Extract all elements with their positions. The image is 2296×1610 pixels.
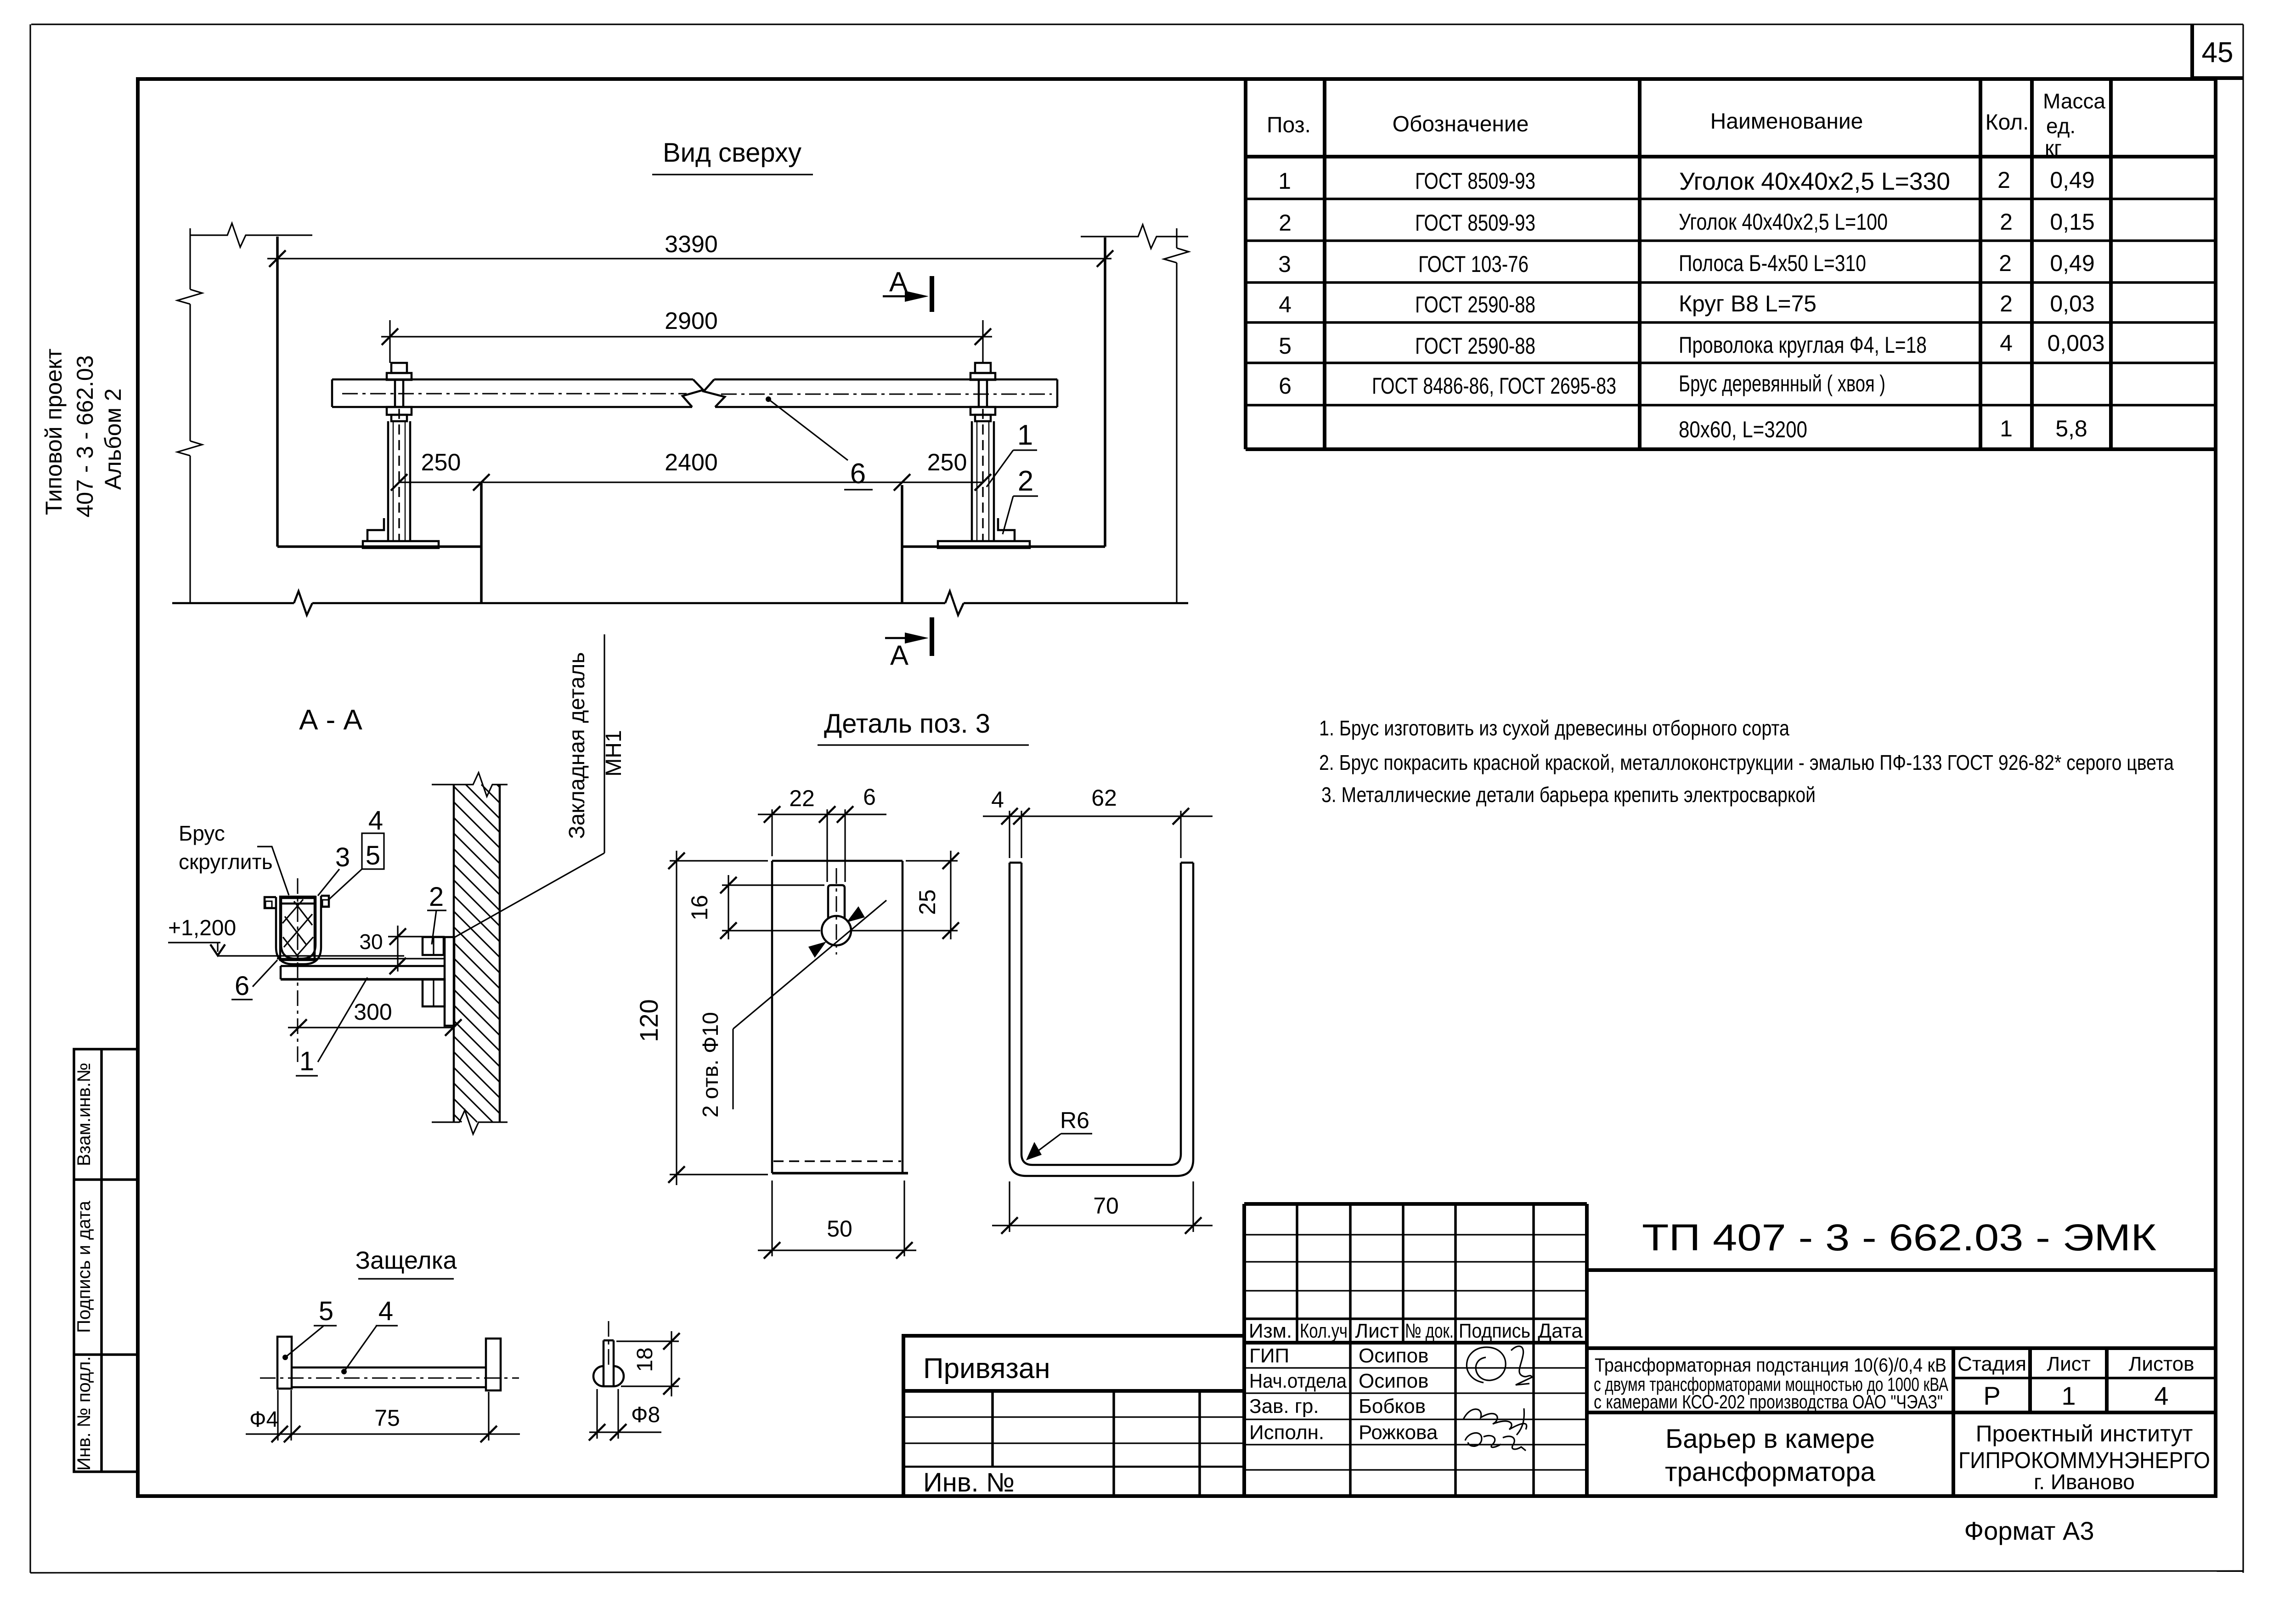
svg-text:Формат А3: Формат А3 — [1964, 1516, 2094, 1545]
svg-text:R6: R6 — [1060, 1107, 1089, 1133]
table GOST designations column — [1372, 168, 1616, 399]
strap right ear with pin — [321, 896, 329, 907]
svg-text:ГИП: ГИП — [1249, 1344, 1289, 1367]
dimension 300 (A-A) — [288, 999, 462, 1036]
top view: right outer extension line with break — [1164, 228, 1189, 603]
dimension 30 (A-A) — [359, 926, 445, 974]
svg-text:ГИПРОКОММУНЭНЕРГО: ГИПРОКОММУНЭНЕРГО — [1958, 1447, 2210, 1473]
wall faces — [454, 785, 500, 1122]
dimension row 250 / 2400 / 250 — [391, 449, 991, 491]
table name column — [1679, 168, 1950, 442]
svg-text:300: 300 — [354, 999, 392, 1025]
wall cut top edge with break — [432, 773, 508, 797]
angle bracket poz.1 horizontal bar — [277, 959, 444, 979]
dimension 50 — [758, 1181, 916, 1259]
svg-text:6: 6 — [863, 784, 876, 810]
signature Осипов — [1467, 1346, 1532, 1385]
hook rod Ф8 detail — [593, 1340, 624, 1386]
svg-text:16: 16 — [687, 895, 712, 921]
svg-text:Инв. № подл.: Инв. № подл. — [74, 1356, 94, 1470]
svg-text:Изм.: Изм. — [1249, 1320, 1292, 1342]
svg-text:Вид сверху: Вид сверху — [663, 138, 801, 168]
svg-text:ед.: ед. — [2046, 114, 2076, 138]
svg-text:0,03: 0,03 — [2050, 291, 2094, 316]
svg-text:Масса: Масса — [2043, 89, 2105, 113]
slot with hole in plate — [822, 885, 851, 945]
right opening edge — [901, 485, 903, 603]
wall section hatching — [454, 785, 500, 1122]
svg-text:5: 5 — [1279, 333, 1292, 359]
left wall bottom face — [277, 545, 481, 548]
svg-text:Р: Р — [1983, 1381, 2000, 1410]
svg-text:Барьер в камере: Барьер в камере — [1665, 1424, 1875, 1454]
svg-text:№ док.: № док. — [1405, 1320, 1454, 1342]
section mark A top — [883, 266, 932, 312]
svg-text:Брус деревянный ( хвоя ): Брус деревянный ( хвоя ) — [1679, 371, 1885, 396]
svg-text:1: 1 — [299, 1046, 314, 1076]
svg-text:62: 62 — [1091, 785, 1117, 811]
dimension 18 (hook) — [616, 1331, 680, 1396]
svg-text:5,8: 5,8 — [2055, 416, 2087, 441]
svg-text:Проектный институт: Проектный институт — [1976, 1421, 2193, 1446]
svg-text:Уголок 40х40х2,5 L=100: Уголок 40х40х2,5 L=100 — [1679, 209, 1888, 235]
anchor angle poz.2 below bar — [423, 979, 445, 1006]
title block: main right part — [1587, 1270, 2216, 1496]
left post body — [388, 409, 410, 541]
svg-text:80х60, L=3200: 80х60, L=3200 — [1679, 417, 1807, 442]
svg-text:Инв. №: Инв. № — [923, 1468, 1015, 1497]
svg-text:Ф4: Ф4 — [249, 1407, 278, 1432]
svg-text:Кол.: Кол. — [1986, 110, 2029, 135]
svg-text:1: 1 — [1017, 419, 1033, 451]
svg-text:4: 4 — [368, 806, 383, 836]
dimension Ф4 and 75 (latch) — [246, 1390, 520, 1442]
svg-text:ТП 407 - 3 - 662.03 - ЭМК: ТП 407 - 3 - 662.03 - ЭМК — [1642, 1217, 2156, 1259]
top view: upper wall extension line left with break — [190, 223, 312, 247]
svg-text:4: 4 — [378, 1296, 393, 1326]
label 4 (A-A) — [368, 806, 383, 836]
svg-text:3. Металлические детали барьер: 3. Металлические детали барьера крепить … — [1321, 783, 1816, 807]
svg-text:Дата: Дата — [1538, 1320, 1583, 1342]
dimension 16 — [687, 875, 824, 939]
label 1 with leader (A-A) — [296, 977, 367, 1076]
svg-text:ГОСТ 8509-93: ГОСТ 8509-93 — [1415, 210, 1535, 236]
wooden bar (brus) top view with middle break — [332, 379, 1057, 407]
svg-text:Зав. гр.: Зав. гр. — [1249, 1395, 1319, 1418]
svg-text:2: 2 — [2000, 291, 2013, 316]
hook rod centreline — [608, 1321, 609, 1365]
table header labels — [1267, 89, 2105, 160]
sheet left edge line — [29, 24, 31, 1573]
svg-text:Закладная деталь: Закладная деталь — [565, 652, 589, 839]
dimension 22 and 6 — [758, 784, 886, 882]
svg-text:250: 250 — [421, 449, 461, 476]
svg-text:30: 30 — [359, 930, 383, 954]
latch right end plate — [486, 1339, 501, 1390]
svg-text:Уголок 40х40х2,5 L=330: Уголок 40х40х2,5 L=330 — [1679, 168, 1950, 195]
svg-text:2: 2 — [1999, 250, 2012, 276]
svg-text:2: 2 — [429, 882, 444, 912]
table position numbers column — [1278, 168, 1292, 399]
dimension 3390 — [267, 231, 1113, 267]
specification table grid — [1246, 79, 2216, 449]
svg-text:45: 45 — [2202, 37, 2234, 68]
revision table role labels — [1249, 1344, 1347, 1444]
svg-text:Нач.отдела: Нач.отдела — [1249, 1370, 1347, 1392]
svg-text:Кол.уч: Кол.уч — [1300, 1320, 1348, 1342]
brus cross-section square — [280, 897, 315, 960]
svg-text:70: 70 — [1093, 1193, 1119, 1219]
svg-text:Наименование: Наименование — [1710, 109, 1863, 134]
svg-text:2 отв. Ф10: 2 отв. Ф10 — [699, 1012, 723, 1118]
leader and label 2 (top view) — [1003, 465, 1038, 534]
latch left end plate — [277, 1337, 292, 1389]
svg-text:+1,200: +1,200 — [168, 916, 236, 940]
svg-text:0,49: 0,49 — [2050, 167, 2094, 193]
svg-text:5: 5 — [319, 1296, 333, 1326]
svg-text:4: 4 — [2000, 330, 2013, 356]
svg-text:Осипов: Осипов — [1359, 1370, 1428, 1392]
svg-text:Осипов: Осипов — [1359, 1344, 1428, 1367]
svg-text:ГОСТ 8509-93: ГОСТ 8509-93 — [1415, 168, 1535, 194]
stage/sheet values — [1983, 1381, 2168, 1410]
title block: revision table — [1244, 1204, 1587, 1496]
revision table header labels — [1249, 1320, 1583, 1342]
svg-text:ГОСТ 2590-88: ГОСТ 2590-88 — [1415, 333, 1535, 359]
label 3 with leader (A-A) — [318, 842, 350, 896]
svg-text:2: 2 — [2000, 209, 2013, 235]
svg-text:1: 1 — [2061, 1381, 2076, 1410]
svg-text:0,49: 0,49 — [2050, 250, 2094, 276]
svg-text:3390: 3390 — [665, 231, 718, 258]
svg-text:5: 5 — [366, 841, 380, 870]
U-strap holder around brus (poz.3) — [276, 896, 321, 964]
svg-text:2: 2 — [1997, 167, 2010, 193]
dimension Ф8 (hook) — [589, 1389, 661, 1441]
svg-text:Обозначение: Обозначение — [1393, 112, 1529, 136]
svg-text:Ф8: Ф8 — [631, 1403, 660, 1427]
svg-text:4: 4 — [1279, 292, 1292, 317]
signature Бобков — [1463, 1408, 1527, 1435]
table mass column — [2047, 167, 2104, 441]
slot centreline — [836, 868, 837, 955]
svg-text:3: 3 — [1278, 251, 1291, 277]
latch centreline — [260, 1378, 519, 1379]
left opening edge — [480, 483, 483, 603]
stage/sheet header — [1958, 1353, 2194, 1375]
left post nut under brus — [387, 407, 412, 421]
svg-text:250: 250 — [927, 449, 967, 476]
svg-text:0,003: 0,003 — [2047, 330, 2104, 356]
top view: upper wall extension line right with break — [1081, 225, 1188, 249]
svg-text:Защелка: Защелка — [355, 1247, 457, 1274]
svg-text:Лист: Лист — [1355, 1320, 1399, 1342]
signature Рожкова — [1465, 1433, 1526, 1451]
sheet top edge line — [31, 23, 2243, 25]
dimension 2900 — [381, 308, 992, 363]
svg-text:2: 2 — [1018, 465, 1033, 497]
dimension 70 — [992, 1181, 1213, 1234]
revision table names — [1359, 1344, 1438, 1444]
svg-text:Проволока круглая Ф4, L=18: Проволока круглая Ф4, L=18 — [1679, 332, 1927, 358]
svg-text:4: 4 — [991, 787, 1004, 813]
leader and label 6 (top view) — [766, 396, 873, 490]
title block: Привязан table — [903, 1336, 1244, 1497]
brus centreline — [342, 393, 687, 395]
svg-text:ГОСТ 8486-86, ГОСТ 2695-83: ГОСТ 8486-86, ГОСТ 2695-83 — [1372, 373, 1616, 399]
dimension 120 — [634, 851, 768, 1185]
plate bend dashed line — [773, 1160, 901, 1162]
svg-text:120: 120 — [634, 999, 663, 1042]
svg-text:ГОСТ 2590-88: ГОСТ 2590-88 — [1415, 292, 1535, 317]
upper anchor clip poz.2 — [423, 937, 444, 955]
svg-text:22: 22 — [789, 785, 815, 811]
svg-text:2. Брус покрасить красной крас: 2. Брус покрасить красной краской, метал… — [1319, 751, 2174, 774]
svg-text:трансформатора: трансформатора — [1665, 1457, 1876, 1487]
label 6 with leader (A-A) — [231, 960, 277, 1001]
svg-text:50: 50 — [827, 1216, 852, 1242]
svg-text:Типовой проект: Типовой проект — [41, 349, 67, 515]
section mark A bottom — [885, 617, 932, 671]
svg-text:Исполн.: Исполн. — [1249, 1421, 1324, 1444]
svg-text:407 - 3 - 662.03: 407 - 3 - 662.03 — [72, 355, 98, 517]
svg-text:0,15: 0,15 — [2050, 209, 2094, 235]
svg-text:Полоса Б-4х50 L=310: Полоса Б-4х50 L=310 — [1679, 250, 1866, 276]
strap left ear with pin — [265, 897, 276, 908]
U-bent strip side view — [1010, 863, 1193, 1176]
left wall face — [276, 237, 279, 547]
svg-text:Лист: Лист — [2047, 1353, 2091, 1375]
svg-text:2900: 2900 — [665, 308, 718, 334]
svg-text:Подпись: Подпись — [1459, 1320, 1530, 1342]
svg-text:кг: кг — [2045, 136, 2062, 160]
svg-text:1: 1 — [1278, 168, 1291, 194]
leader and label 1 (top view) — [987, 419, 1037, 487]
svg-text:Бобков: Бобков — [1359, 1395, 1426, 1418]
svg-text:МН1: МН1 — [602, 730, 626, 776]
strap top cover plate with bolt — [279, 898, 316, 904]
right post body — [972, 409, 994, 541]
leader from МН1 to embedded plate — [453, 634, 604, 938]
svg-text:Листов: Листов — [2129, 1353, 2194, 1375]
right post base angle step — [998, 518, 1015, 541]
svg-text:Стадия: Стадия — [1958, 1353, 2026, 1375]
svg-text:25: 25 — [914, 889, 940, 915]
svg-text:6: 6 — [235, 971, 249, 1001]
svg-text:Подпись и дата: Подпись и дата — [74, 1200, 94, 1333]
callout R6 — [1026, 1107, 1092, 1160]
left post base angle step — [367, 518, 384, 541]
page number box 45 — [2192, 24, 2243, 79]
svg-text:6: 6 — [850, 458, 866, 490]
svg-text:Альбом 2: Альбом 2 — [100, 388, 126, 490]
svg-text:Поз.: Поз. — [1267, 113, 1311, 137]
label 5 with leader (latch) — [282, 1296, 337, 1360]
svg-text:4: 4 — [2154, 1381, 2168, 1410]
institute name — [1958, 1421, 2210, 1494]
svg-text:18: 18 — [633, 1347, 657, 1372]
left post base plate — [363, 541, 439, 548]
right wall face — [1104, 237, 1106, 547]
svg-text:Взам.инв.№: Взам.инв.№ — [74, 1062, 94, 1166]
label Брус скруглить — [179, 821, 289, 895]
svg-text:75: 75 — [374, 1405, 400, 1431]
svg-text:Рожкова: Рожкова — [1359, 1421, 1438, 1444]
svg-text:Круг В8 L=75: Круг В8 L=75 — [1679, 291, 1816, 316]
svg-text:1. Брус изготовить из сухой др: 1. Брус изготовить из сухой древесины от… — [1319, 716, 1789, 740]
svg-text:1: 1 — [2000, 416, 2013, 441]
lower wall long line with breaks — [172, 591, 1188, 615]
right post bolt head — [970, 363, 995, 407]
right wall bottom face — [902, 545, 1105, 548]
label 2 with leader (A-A) — [427, 882, 446, 944]
embedded plate MH1 — [445, 937, 454, 1026]
right post nut under brus — [970, 407, 995, 421]
svg-text:6: 6 — [1279, 373, 1292, 399]
brus vertical centreline — [297, 878, 299, 1066]
latch rod — [292, 1367, 486, 1387]
table quantity column — [1997, 167, 2013, 441]
svg-text:Трансформаторная подстанция 10: Трансформаторная подстанция 10(6)/0,4 кВ — [1595, 1354, 1946, 1376]
left margin stamp boxes — [74, 1049, 138, 1472]
svg-text:ГОСТ 103-76: ГОСТ 103-76 — [1418, 251, 1529, 277]
drawing name — [1665, 1424, 1876, 1487]
brus wood hatch — [282, 899, 313, 957]
project description — [1594, 1354, 1948, 1412]
svg-text:2400: 2400 — [665, 449, 718, 476]
svg-text:2: 2 — [1279, 210, 1292, 236]
svg-text:А: А — [890, 640, 908, 671]
svg-text:с камерами КСО-202 производств: с камерами КСО-202 производства ОАО "ЧЭА… — [1594, 1391, 1943, 1412]
sheet right edge line — [2242, 24, 2244, 1573]
svg-text:Деталь поз. 3: Деталь поз. 3 — [824, 709, 990, 739]
drawing frame border — [138, 79, 2216, 1496]
svg-text:Привязан: Привязан — [923, 1353, 1050, 1384]
right post base plate — [938, 541, 1030, 548]
label 4 with leader (latch) — [341, 1296, 398, 1374]
label 5 boxed with leader (A-A) — [328, 833, 384, 900]
svg-text:А - А: А - А — [299, 704, 362, 736]
svg-text:Брус: Брус — [179, 821, 225, 845]
flat plate view (poz.3 development) — [772, 861, 908, 1173]
dimension 4 and 62 — [983, 785, 1213, 858]
svg-text:скруглить: скруглить — [179, 850, 273, 874]
wall cut bottom edge with break — [432, 1110, 508, 1134]
left post bolt head — [387, 363, 412, 407]
level line +1,200 — [168, 916, 404, 956]
top view: left outer extension line with breaks — [177, 228, 202, 603]
svg-text:г. Иваново: г. Иваново — [2034, 1470, 2135, 1494]
sheet bottom edge line — [30, 1571, 2243, 1573]
dimension 25 — [852, 851, 959, 939]
callout 2 отв. Ф10 — [699, 900, 886, 1118]
svg-text:3: 3 — [335, 842, 350, 872]
